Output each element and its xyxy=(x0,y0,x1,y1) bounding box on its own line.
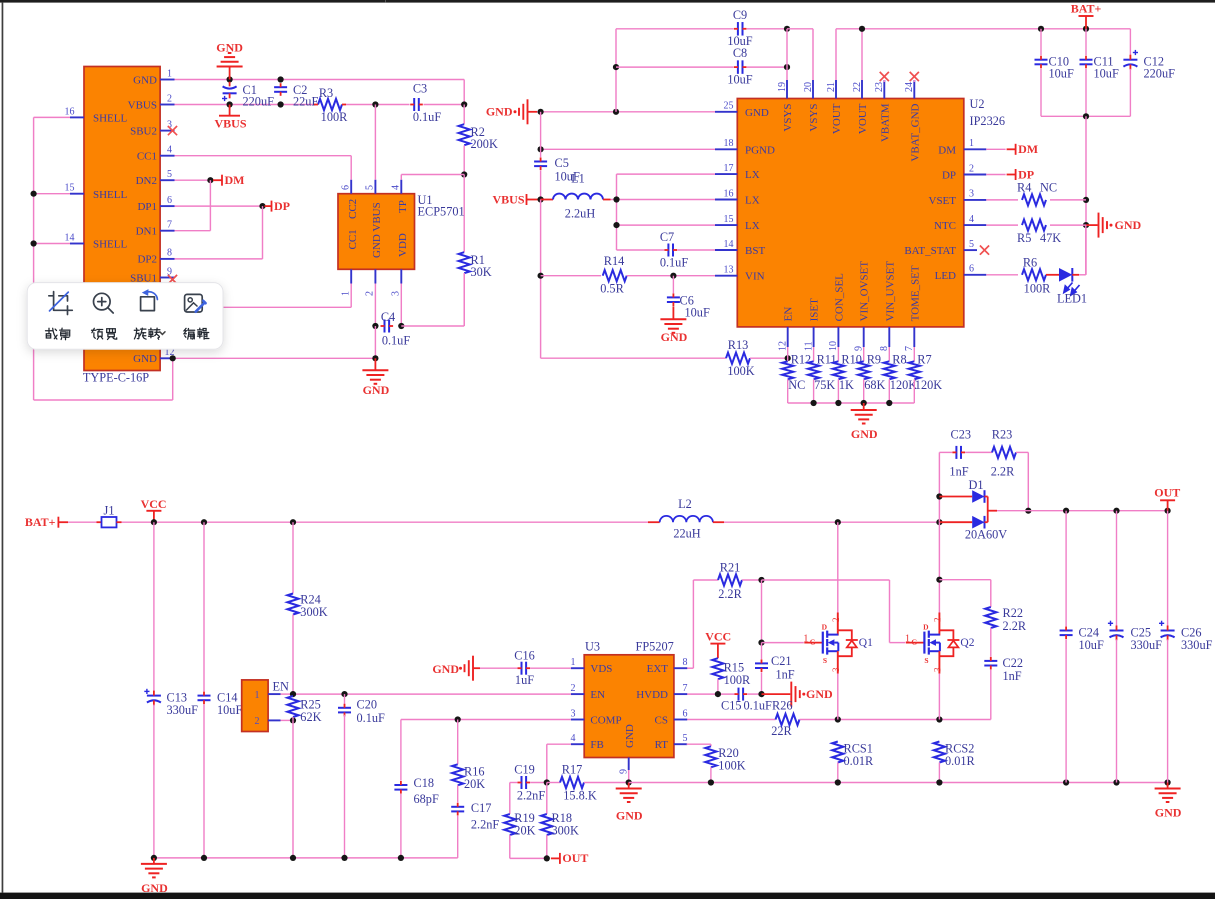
wire pin23 pin24 short stubs xyxy=(884,80,914,82)
svg-text:3: 3 xyxy=(969,189,974,200)
svg-text:0.1uF: 0.1uF xyxy=(382,334,411,348)
U2 top pins xyxy=(777,80,922,162)
wire R21 node xyxy=(758,577,905,643)
wire Q1 drain column xyxy=(837,522,839,612)
frame left edge line xyxy=(2,3,4,893)
wire DP node down to DP2 pin8 xyxy=(175,206,263,259)
U2 bottom pins xyxy=(778,261,922,351)
svg-text:22R: 22R xyxy=(771,724,792,738)
svg-text:LED1: LED1 xyxy=(1057,292,1087,306)
resistor R4 NC xyxy=(986,180,1086,205)
svg-text:0.5R: 0.5R xyxy=(600,281,624,295)
capacitor C8 10uF xyxy=(616,46,787,87)
frame bottom bar xyxy=(0,893,1215,899)
svg-text:C5: C5 xyxy=(555,156,569,170)
svg-text:OUT: OUT xyxy=(1154,485,1180,499)
inductor L1 2.2uH xyxy=(541,172,617,221)
svg-text:2.2R: 2.2R xyxy=(1003,619,1027,633)
svg-text:GND: GND xyxy=(851,427,878,441)
resistor R25 62K xyxy=(287,696,321,724)
wire connector pin12 GND to C4 node xyxy=(175,355,379,361)
svg-text:22uH: 22uH xyxy=(673,527,700,541)
svg-text:DP: DP xyxy=(274,199,290,213)
U3 GND pin 9 xyxy=(619,724,637,774)
svg-text:0.01R: 0.01R xyxy=(844,754,875,768)
svg-text:NTC: NTC xyxy=(934,220,956,232)
wire VBUS to U1 pin5 xyxy=(374,105,376,180)
U1 pin labels xyxy=(347,199,409,258)
svg-text:1: 1 xyxy=(571,657,576,668)
wire U1 pin2 node to GND rail xyxy=(374,326,376,358)
svg-text:D1: D1 xyxy=(968,478,983,492)
wire snubber vertical xyxy=(936,452,942,522)
svg-text:2.2R: 2.2R xyxy=(718,587,742,601)
capacitor C13 330uF xyxy=(144,522,198,858)
wire C4 right to R1 bottom xyxy=(401,273,464,326)
junction dot TP node xyxy=(461,171,467,177)
svg-text:4: 4 xyxy=(969,214,974,225)
resistor R17 15.8K xyxy=(544,762,629,802)
wire battery cap bottom rail xyxy=(1041,113,1130,119)
resistor RCS1 0.01R xyxy=(832,742,874,783)
svg-text:S: S xyxy=(823,656,827,665)
net flag DP (U2) xyxy=(986,167,1034,181)
svg-text:5: 5 xyxy=(683,733,688,744)
U2 right pins xyxy=(904,138,986,282)
wire DP1 pin6 to DP node xyxy=(175,203,266,209)
svg-text:DP: DP xyxy=(942,170,956,182)
svg-text:1: 1 xyxy=(255,690,260,701)
svg-text:IP2326: IP2326 xyxy=(970,114,1006,128)
svg-text:TOME_SET: TOME_SET xyxy=(909,265,921,321)
wire COMP net xyxy=(401,716,571,722)
svg-text:GND: GND xyxy=(624,724,636,748)
power flag OUT (top right) xyxy=(1154,485,1180,510)
svg-text:3: 3 xyxy=(391,291,402,296)
net flag DP (left) xyxy=(265,199,291,213)
wire VSYS pins 19/20 xyxy=(784,26,813,80)
svg-text:6: 6 xyxy=(683,708,688,719)
svg-text:U3: U3 xyxy=(585,640,600,654)
svg-text:R21: R21 xyxy=(720,561,741,575)
svg-text:S: S xyxy=(924,656,928,665)
ground bottom left xyxy=(141,858,168,895)
svg-text:GND: GND xyxy=(1155,806,1182,820)
svg-text:4: 4 xyxy=(571,733,576,744)
svg-text:30K: 30K xyxy=(471,265,492,279)
wire VIN pin13 xyxy=(670,273,715,279)
svg-text:6: 6 xyxy=(969,264,974,275)
svg-text:24: 24 xyxy=(904,82,915,92)
svg-text:330uF: 330uF xyxy=(1181,638,1213,652)
svg-text:6: 6 xyxy=(341,185,352,190)
wire LX bus xyxy=(613,174,715,250)
svg-text:DM: DM xyxy=(225,173,245,187)
wire OUT rail xyxy=(997,508,1171,514)
capacitor C3 0.1uF xyxy=(410,82,441,125)
svg-text:15.8.K: 15.8.K xyxy=(563,789,597,803)
svg-text:1: 1 xyxy=(905,634,910,645)
svg-text:DP1: DP1 xyxy=(137,201,157,213)
capacitor C26 330uF xyxy=(1159,511,1213,783)
wire GND flag to pin25 xyxy=(537,109,715,115)
ground (inverted) above C1 xyxy=(216,41,243,80)
transistor Q1 xyxy=(803,613,873,674)
svg-text:VIN_OVSET: VIN_OVSET xyxy=(859,261,871,322)
capacitor C18 68pF xyxy=(394,720,439,858)
resistor R2 200K xyxy=(459,105,498,175)
svg-text:6: 6 xyxy=(167,195,172,206)
svg-text:DM: DM xyxy=(938,144,956,156)
svg-text:2: 2 xyxy=(969,163,974,174)
svg-text:2.2uH: 2.2uH xyxy=(565,207,596,221)
svg-text:330uF: 330uF xyxy=(1131,638,1163,652)
svg-text:C8: C8 xyxy=(733,46,747,60)
wire CC1 pin4 to U1 pin6 xyxy=(175,156,352,180)
svg-text:EN: EN xyxy=(783,307,795,322)
svg-text:C18: C18 xyxy=(414,776,435,790)
wire CS to Q2 source xyxy=(835,716,991,722)
svg-text:2.2R: 2.2R xyxy=(991,465,1015,479)
svg-text:13: 13 xyxy=(724,265,734,276)
resistor R22 2.2R xyxy=(985,606,1027,633)
wire PGND pin18 xyxy=(538,146,716,152)
svg-text:COMP: COMP xyxy=(590,715,621,727)
svg-text:C15: C15 xyxy=(721,699,742,713)
svg-text:CS: CS xyxy=(655,715,668,727)
capacitor C6 10uF xyxy=(667,276,710,320)
svg-text:R4: R4 xyxy=(1017,180,1031,194)
svg-text:DN1: DN1 xyxy=(136,226,157,238)
svg-text:GND: GND xyxy=(432,662,459,676)
svg-text:4: 4 xyxy=(167,145,172,156)
svg-text:R9: R9 xyxy=(867,352,881,366)
svg-text:18: 18 xyxy=(724,138,734,149)
svg-text:10uF: 10uF xyxy=(217,703,242,717)
svg-text:GND: GND xyxy=(616,809,643,823)
ground flag (pin25 GND net) xyxy=(486,99,537,124)
junction dot EN pin12 xyxy=(785,355,791,361)
svg-text:47K: 47K xyxy=(1040,231,1061,245)
svg-text:GND: GND xyxy=(141,881,168,895)
svg-text:0.1uF: 0.1uF xyxy=(660,256,689,270)
svg-text:D: D xyxy=(923,623,929,632)
svg-text:75K: 75K xyxy=(814,378,835,392)
svg-text:FP5207: FP5207 xyxy=(636,640,674,654)
svg-text:C16: C16 xyxy=(514,649,535,663)
no-connect X pin 9 xyxy=(168,275,177,284)
frame top bar xyxy=(0,0,1215,3)
svg-text:SHELL: SHELL xyxy=(93,189,128,201)
svg-text:R5: R5 xyxy=(1017,231,1031,245)
svg-text:DM: DM xyxy=(1018,142,1038,156)
svg-text:5: 5 xyxy=(365,185,376,190)
op-amp U1 ECP5701 body xyxy=(338,193,465,269)
svg-text:19: 19 xyxy=(777,82,788,92)
svg-text:23: 23 xyxy=(874,82,885,92)
svg-text:VOUT: VOUT xyxy=(831,103,843,134)
svg-text:2.2nF: 2.2nF xyxy=(517,789,546,803)
svg-text:C23: C23 xyxy=(951,428,972,442)
svg-text:120K: 120K xyxy=(890,378,917,392)
svg-text:2: 2 xyxy=(365,291,376,296)
svg-text:R23: R23 xyxy=(992,428,1013,442)
svg-text:VBAT_GND: VBAT_GND xyxy=(909,103,921,161)
svg-text:3: 3 xyxy=(571,708,576,719)
svg-text:2: 2 xyxy=(167,93,172,104)
no-connect X pin 3 xyxy=(168,126,177,135)
wire Q2 snubber branch xyxy=(939,580,990,607)
capacitor C19 2.2nF xyxy=(510,762,547,802)
svg-text:200K: 200K xyxy=(471,137,498,151)
wire Q2 source to CS xyxy=(938,674,940,720)
svg-text:DN2: DN2 xyxy=(136,175,157,187)
svg-text:9: 9 xyxy=(854,346,865,351)
svg-text:Q2: Q2 xyxy=(960,637,974,649)
junction dots on GND/VBUS rails xyxy=(227,76,468,107)
svg-text:10uF: 10uF xyxy=(1094,67,1119,81)
wire bottom gnd rail (left) xyxy=(151,855,458,861)
svg-text:R7: R7 xyxy=(917,352,931,366)
svg-text:GND: GND xyxy=(745,107,769,119)
svg-text:CC2: CC2 xyxy=(347,199,359,219)
inductor L2 22uH xyxy=(648,497,724,541)
net flag VBUS (L1) xyxy=(492,192,543,206)
svg-text:2: 2 xyxy=(255,716,260,727)
resistor R18 300K xyxy=(541,783,579,859)
svg-text:300K: 300K xyxy=(300,605,327,619)
ground below U3 xyxy=(616,783,643,823)
wire HVDD pin7 xyxy=(687,691,737,697)
popup icon rotate xyxy=(141,289,158,310)
svg-text:G: G xyxy=(911,637,917,646)
svg-text:9: 9 xyxy=(619,769,630,774)
svg-text:14: 14 xyxy=(724,239,734,250)
transistor Q2 xyxy=(905,613,975,674)
svg-text:5: 5 xyxy=(167,169,172,180)
svg-text:C22: C22 xyxy=(1003,656,1024,670)
svg-text:100R: 100R xyxy=(321,110,348,124)
wire SHELL bus xyxy=(34,117,173,400)
wire pin1 GND rail xyxy=(175,80,465,105)
svg-text:20K: 20K xyxy=(464,777,485,791)
capacitor C22 1nF xyxy=(984,628,1023,720)
svg-text:R10: R10 xyxy=(841,352,862,366)
ground below C6 xyxy=(660,306,687,344)
svg-text:LX: LX xyxy=(745,195,760,207)
capacitor C1 220uF xyxy=(222,82,274,109)
capacitor C15 0.1uF xyxy=(721,688,772,713)
svg-text:68K: 68K xyxy=(864,378,885,392)
capacitor C10 10uF xyxy=(1035,29,1074,117)
svg-text:LX: LX xyxy=(745,220,760,232)
ground flag (NTC net) xyxy=(1086,213,1142,238)
svg-text:VBUS: VBUS xyxy=(492,192,524,206)
capacitor C5 10uF xyxy=(534,112,580,200)
svg-text:100R: 100R xyxy=(1024,281,1051,295)
resistor R1 30K xyxy=(459,175,492,327)
svg-text:8: 8 xyxy=(683,657,688,668)
svg-text:120K: 120K xyxy=(915,378,942,392)
svg-text:GND: GND xyxy=(133,353,157,365)
svg-text:16: 16 xyxy=(724,188,734,199)
svg-text:VCC: VCC xyxy=(705,630,731,644)
svg-text:1: 1 xyxy=(803,634,808,645)
svg-text:LED: LED xyxy=(935,270,956,282)
svg-text:10: 10 xyxy=(828,341,839,351)
connector J1 xyxy=(68,503,122,527)
resistor bank R12/R11/R10/R9/R8/R7 xyxy=(782,347,942,403)
svg-text:BAT+: BAT+ xyxy=(25,515,56,529)
svg-text:10uF: 10uF xyxy=(685,306,710,320)
wire power gnd rail xyxy=(629,779,1171,785)
LED LED1 xyxy=(1046,268,1087,306)
svg-text:VDD: VDD xyxy=(397,233,409,257)
wire DM node down to DN1 pin7 xyxy=(175,180,211,231)
svg-text:R14: R14 xyxy=(604,254,625,268)
svg-text:7: 7 xyxy=(167,220,172,231)
wire EN header pin1 xyxy=(281,691,297,697)
popup label rotate xyxy=(134,328,165,339)
svg-text:R22: R22 xyxy=(1003,606,1024,620)
ground flag (C16) xyxy=(432,656,480,681)
resistor R14 0.5R xyxy=(541,254,674,295)
net flag OUT (bottom) xyxy=(551,851,589,865)
svg-text:R17: R17 xyxy=(562,762,583,776)
wire RT to R20 xyxy=(571,744,711,746)
svg-text:2.2nF: 2.2nF xyxy=(471,818,500,832)
resistor R3 100R xyxy=(314,86,348,124)
svg-text:VIN_UVSET: VIN_UVSET xyxy=(884,261,896,322)
resistor R6 100R xyxy=(986,255,1051,295)
wire VBUS column down xyxy=(538,200,544,359)
svg-text:DP: DP xyxy=(1018,167,1034,181)
svg-text:22uF: 22uF xyxy=(293,95,318,109)
svg-text:G: G xyxy=(810,637,816,646)
svg-text:2: 2 xyxy=(831,618,841,623)
wire DN2 pin5 to DM node xyxy=(175,177,214,183)
popup label preview xyxy=(92,328,117,339)
ground right rail xyxy=(1155,783,1182,820)
power flag BAT+ (top) xyxy=(1071,2,1102,29)
svg-text:20A60V: 20A60V xyxy=(965,528,1007,542)
svg-text:21: 21 xyxy=(826,82,837,92)
svg-text:BAT+: BAT+ xyxy=(1071,2,1102,16)
resistor R5 47K xyxy=(986,220,1086,245)
svg-text:ECP5701: ECP5701 xyxy=(418,205,465,219)
wire L2 to Q1/Q2 drains xyxy=(724,519,943,525)
resistor R20 100K xyxy=(705,746,745,783)
svg-text:NC: NC xyxy=(788,378,805,392)
power flag VCC (left) xyxy=(141,497,167,522)
U1 bottom pins 1/2/3 xyxy=(341,269,402,296)
svg-text:DP2: DP2 xyxy=(137,254,157,266)
wire C8/C9 vertical xyxy=(613,29,619,112)
svg-text:62K: 62K xyxy=(300,710,321,724)
svg-text:BAT_STAT: BAT_STAT xyxy=(904,245,956,257)
svg-text:3: 3 xyxy=(932,667,942,672)
svg-text:TP: TP xyxy=(397,200,409,213)
svg-text:NC: NC xyxy=(1040,180,1057,194)
capacitor C24 10uF xyxy=(1060,511,1104,783)
svg-text:20K: 20K xyxy=(514,823,535,837)
svg-text:R6: R6 xyxy=(1023,255,1037,269)
svg-text:C17: C17 xyxy=(471,801,492,815)
svg-text:VIN: VIN xyxy=(745,271,765,283)
capacitor C23 1nF xyxy=(939,428,971,479)
popup label edit xyxy=(184,328,209,339)
popup icon edit xyxy=(185,294,206,312)
no-connect X pins 23/24 xyxy=(880,72,919,81)
junction dots SHELL bus xyxy=(30,191,175,362)
svg-text:4: 4 xyxy=(391,185,402,190)
wire right vertical rail to LED xyxy=(1083,116,1089,274)
junction dots at C4 xyxy=(372,323,404,329)
svg-text:VCC: VCC xyxy=(141,497,167,511)
svg-text:RT: RT xyxy=(655,739,669,751)
svg-text:D: D xyxy=(822,623,828,632)
svg-text:VOUT: VOUT xyxy=(857,103,869,134)
svg-text:CC1: CC1 xyxy=(347,229,359,249)
svg-text:0.1uF: 0.1uF xyxy=(413,110,442,124)
svg-text:VDS: VDS xyxy=(590,663,612,675)
net flag BAT+ (J1) xyxy=(25,515,68,529)
svg-text:VSYS: VSYS xyxy=(782,104,794,132)
svg-text:1K: 1K xyxy=(839,378,854,392)
net flag VBUS below C1 xyxy=(214,105,246,131)
svg-text:100R: 100R xyxy=(724,673,751,687)
svg-text:GND: GND xyxy=(216,41,243,55)
net flag DM (U2) xyxy=(986,142,1038,156)
net flag DM (left) xyxy=(213,173,245,187)
svg-text:330uF: 330uF xyxy=(167,703,199,717)
svg-text:14: 14 xyxy=(65,233,75,244)
wire resistor bank bottom rail xyxy=(788,400,915,406)
wire EN header pin2 xyxy=(281,717,297,858)
popup icon crop xyxy=(49,292,73,315)
svg-text:GND: GND xyxy=(806,687,833,701)
capacitor C20 0.1uF xyxy=(338,694,385,858)
capacitor C21 1nF xyxy=(755,643,795,695)
U1 top pins 6/5/4 xyxy=(341,180,402,194)
svg-text:15: 15 xyxy=(724,214,734,225)
svg-text:R11: R11 xyxy=(817,352,837,366)
wire LED to rail xyxy=(1085,225,1087,275)
svg-text:C3: C3 xyxy=(413,82,427,96)
popup toolbar panel xyxy=(27,283,223,350)
svg-text:TYPE-C-16P: TYPE-C-16P xyxy=(83,371,149,385)
svg-text:2: 2 xyxy=(932,618,942,623)
svg-text:1: 1 xyxy=(969,138,974,149)
capacitor C25 330uF xyxy=(1108,511,1162,783)
svg-text:300K: 300K xyxy=(552,823,579,837)
svg-text:7: 7 xyxy=(683,683,688,694)
svg-text:GND: GND xyxy=(486,105,513,119)
capacitor C17 2.2nF xyxy=(451,785,499,858)
svg-text:VBUS: VBUS xyxy=(128,99,157,111)
wire pin2 VBUS rail xyxy=(175,104,465,106)
svg-text:GND VBUS: GND VBUS xyxy=(371,202,383,258)
svg-text:8: 8 xyxy=(167,248,172,259)
U2 left pins xyxy=(715,101,775,283)
svg-text:GND: GND xyxy=(661,330,688,344)
capacitor C16 1uF xyxy=(480,649,571,688)
svg-text:11: 11 xyxy=(803,341,814,351)
svg-text:ISET: ISET xyxy=(809,298,821,322)
svg-text:2: 2 xyxy=(571,683,576,694)
svg-text:C21: C21 xyxy=(771,654,792,668)
wire Q1 source to CS xyxy=(837,674,839,720)
